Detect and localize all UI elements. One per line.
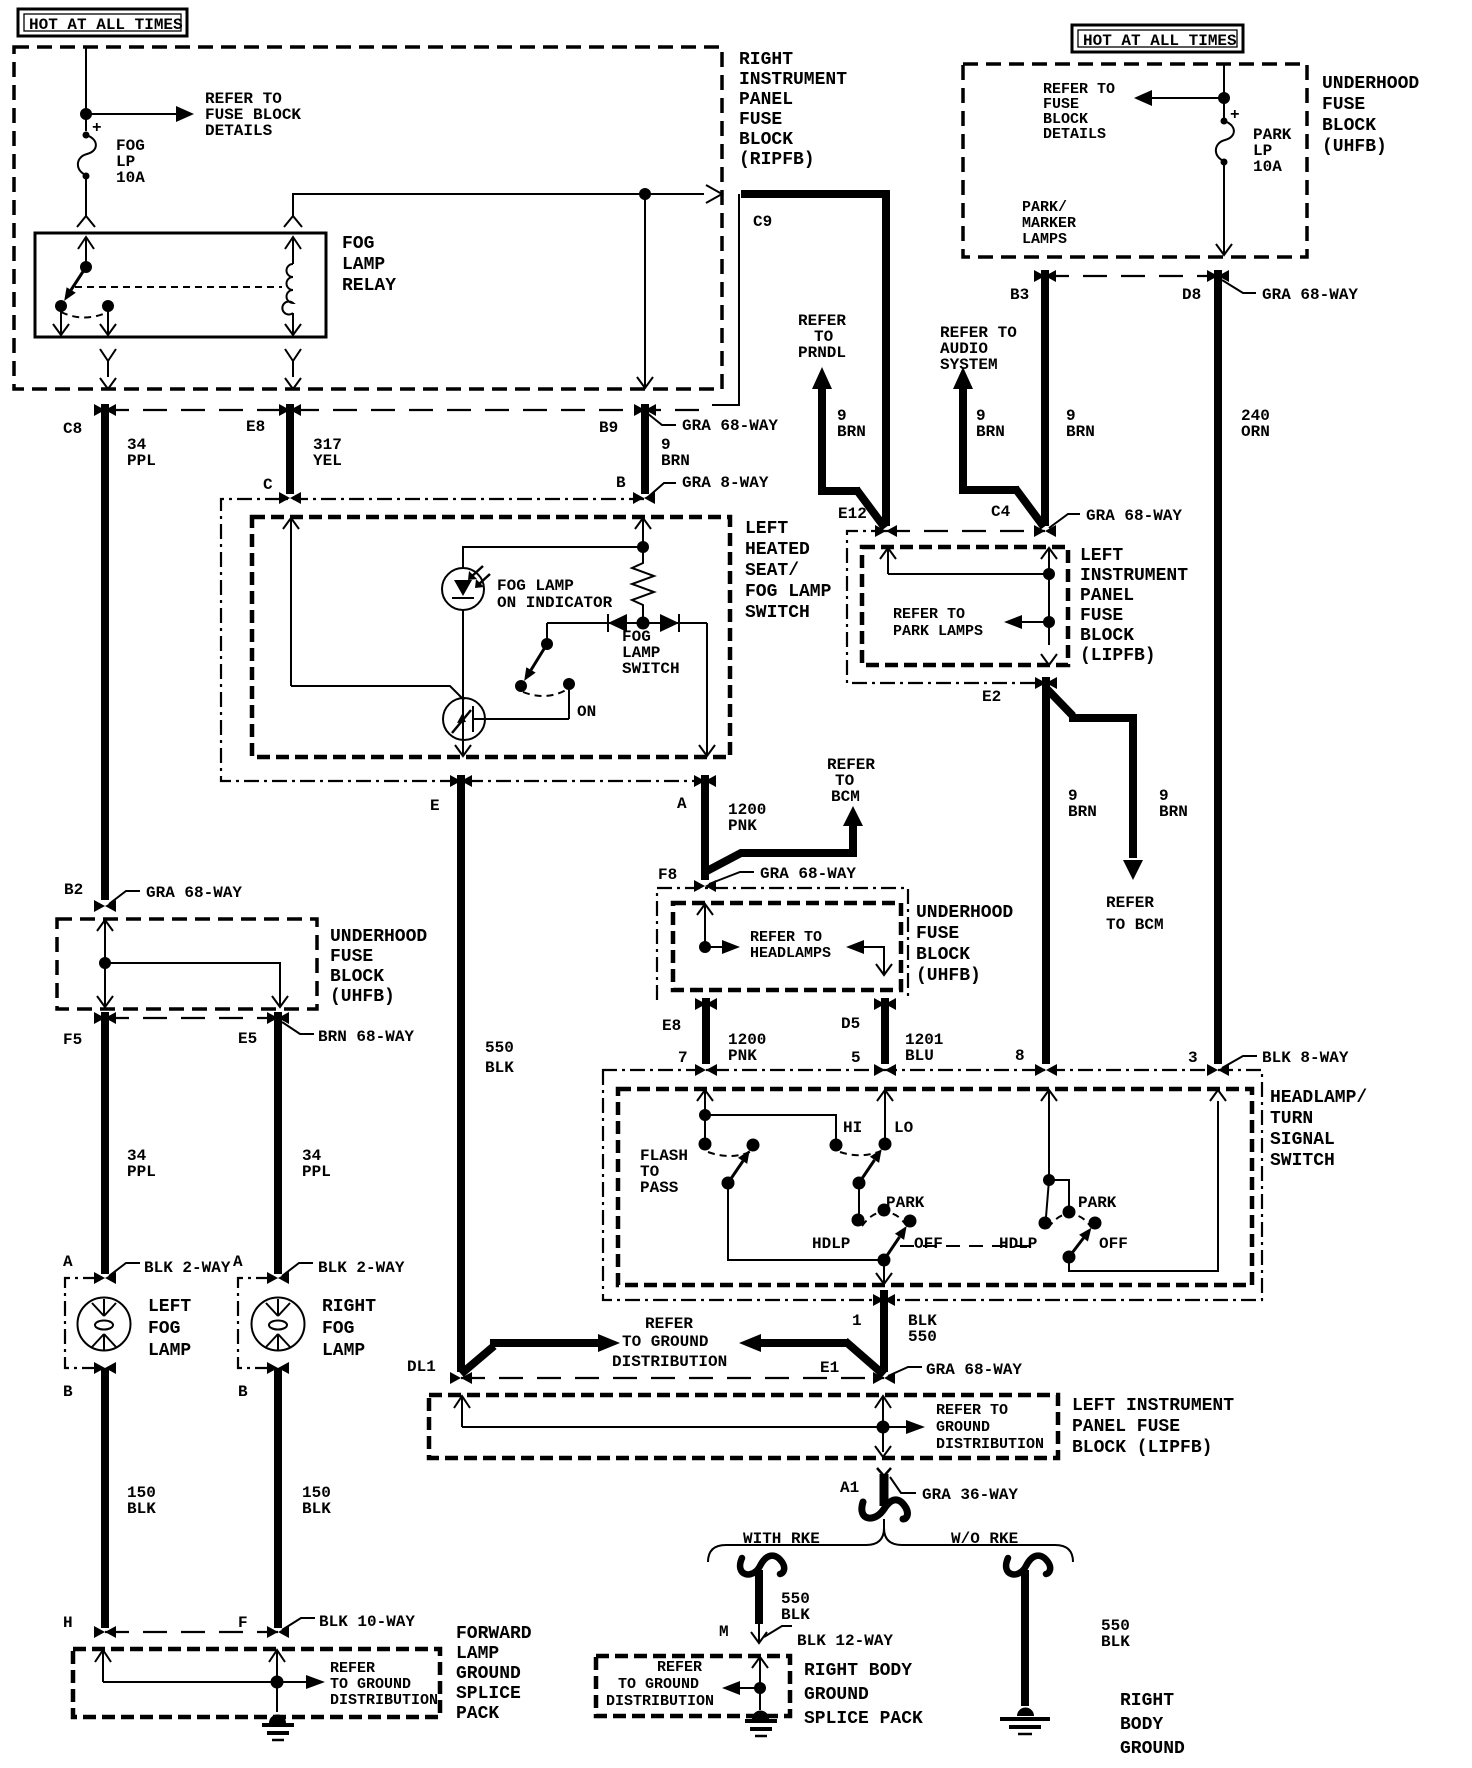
in-line connector A1 bbox=[862, 1468, 908, 1519]
ground (right body ground) bbox=[1000, 1708, 1050, 1735]
svg-text:SYSTEM: SYSTEM bbox=[940, 356, 998, 374]
fog switch blade bbox=[531, 644, 547, 670]
svg-text:A: A bbox=[63, 1253, 73, 1271]
svg-text:M: M bbox=[719, 1623, 729, 1641]
wire arrow REFER TO PRNDL bbox=[822, 385, 885, 528]
svg-text:BLK 12-WAY: BLK 12-WAY bbox=[797, 1632, 893, 1650]
node splice junction bbox=[271, 1676, 284, 1689]
wire UHFB internal tie bbox=[105, 963, 280, 990]
svg-text:E5: E5 bbox=[238, 1030, 257, 1048]
wire arrow REFER TO GROUND DISTRIBUTION (right body) bbox=[740, 1687, 760, 1689]
svg-text:LAMP: LAMP bbox=[456, 1644, 499, 1664]
svg-text:SWITCH: SWITCH bbox=[622, 660, 680, 678]
pin arrow 3 bbox=[1210, 1090, 1226, 1101]
svg-text:PANEL: PANEL bbox=[739, 90, 793, 110]
connector A bowtie (left fog lamp) bbox=[94, 1272, 116, 1284]
LIPFB inner dashed box (upper) bbox=[862, 547, 1068, 665]
svg-text:TO GROUND: TO GROUND bbox=[618, 1676, 699, 1693]
flash-to-pass dashed arc bbox=[708, 1152, 750, 1156]
RIPFB thin boundary line bbox=[712, 194, 739, 405]
transistor fog lamp switch driver bbox=[443, 698, 569, 740]
wire 150 BLK right fog lamp to F bbox=[274, 1368, 282, 1628]
connector row F5/E5 bbox=[105, 1017, 278, 1019]
brace RKE split bbox=[708, 1528, 1073, 1562]
relay bottom connector Y at pin E8 side bbox=[285, 349, 301, 389]
pin arrow H into splice pack bbox=[95, 1650, 111, 1682]
svg-text:C9: C9 bbox=[753, 213, 772, 231]
svg-text:GRA 68-WAY: GRA 68-WAY bbox=[1262, 286, 1358, 304]
in-line connector (W/O RKE) bbox=[1006, 1556, 1050, 1575]
leader GRA 68-WAY at E1 bbox=[888, 1367, 922, 1376]
underhood fuse block (headlamps) outer dash-dot box bbox=[657, 888, 908, 1000]
svg-text:RIGHT: RIGHT bbox=[739, 50, 793, 70]
wire pin8 to HDLP contact (right pole) bbox=[1046, 1180, 1049, 1217]
svg-text:BLOCK: BLOCK bbox=[916, 945, 970, 965]
svg-text:F5: F5 bbox=[63, 1031, 82, 1049]
svg-text:FUSE: FUSE bbox=[1322, 95, 1365, 115]
svg-text:YEL: YEL bbox=[313, 452, 342, 470]
svg-text:(UHFB): (UHFB) bbox=[1322, 137, 1387, 157]
svg-text:BRN: BRN bbox=[976, 423, 1005, 441]
HDLP contact (right pole) bbox=[1039, 1217, 1052, 1230]
connector E2 bowtie bbox=[1035, 677, 1057, 689]
svg-text:BCM: BCM bbox=[831, 788, 860, 806]
svg-text:GROUND: GROUND bbox=[1120, 1739, 1185, 1759]
svg-text:LO: LO bbox=[894, 1119, 914, 1137]
pin arrow 5 bbox=[877, 1090, 893, 1144]
svg-text:C4: C4 bbox=[991, 503, 1011, 521]
node junction inside UHFB bbox=[99, 957, 111, 969]
svg-text:HI: HI bbox=[843, 1119, 862, 1137]
svg-text:BLOCK: BLOCK bbox=[739, 130, 793, 150]
svg-text:REFER TO: REFER TO bbox=[750, 929, 822, 946]
svg-text:ON: ON bbox=[577, 703, 596, 721]
UHFB output arrows F5/E5 bbox=[97, 963, 113, 1007]
headlamp selector blade (left pole) bbox=[884, 1237, 900, 1260]
headlamp selector blade (right pole) bbox=[1069, 1238, 1084, 1257]
svg-text:SIGNAL: SIGNAL bbox=[1270, 1130, 1335, 1150]
svg-text:SEAT/: SEAT/ bbox=[745, 561, 799, 581]
svg-text:+: + bbox=[1230, 106, 1240, 124]
svg-text:INSTRUMENT: INSTRUMENT bbox=[1080, 566, 1188, 586]
svg-text:+: + bbox=[92, 119, 102, 137]
leader GRA 68-WAY at B2 bbox=[109, 891, 140, 904]
PARK contact (right pole) bbox=[1063, 1206, 1076, 1219]
svg-text:W/O RKE: W/O RKE bbox=[951, 1530, 1018, 1548]
leader BLK 2-WAY (left) bbox=[109, 1263, 140, 1276]
leader GRA 68-WAY at B9 bbox=[647, 413, 676, 425]
svg-text:SWITCH: SWITCH bbox=[745, 603, 810, 623]
svg-text:DL1: DL1 bbox=[407, 1358, 436, 1376]
node pin8 junction bbox=[1043, 1174, 1055, 1186]
svg-text:PRNDL: PRNDL bbox=[798, 344, 846, 362]
connector row C8/E8/B9 bbox=[105, 409, 712, 411]
svg-text:GRA 68-WAY: GRA 68-WAY bbox=[682, 417, 778, 435]
svg-text:E8: E8 bbox=[662, 1017, 681, 1035]
LIPFB outer dash-dot box (upper) bbox=[847, 531, 1040, 683]
svg-text:SPLICE: SPLICE bbox=[456, 1684, 521, 1704]
connector H bowtie bbox=[94, 1626, 116, 1638]
svg-text:GRA 36-WAY: GRA 36-WAY bbox=[922, 1486, 1018, 1504]
svg-text:HDLP: HDLP bbox=[999, 1235, 1037, 1253]
pin arrow C into switch bbox=[283, 518, 299, 529]
svg-text:ORN: ORN bbox=[1241, 423, 1270, 441]
OFF contact (left pole) bbox=[904, 1215, 917, 1228]
svg-text:REFER: REFER bbox=[1106, 894, 1154, 912]
OFF contact (right pole) bbox=[1089, 1217, 1102, 1230]
svg-text:(RIPFB): (RIPFB) bbox=[739, 150, 815, 170]
svg-text:DISTRIBUTION: DISTRIBUTION bbox=[606, 1693, 714, 1710]
svg-text:FUSE: FUSE bbox=[916, 924, 959, 944]
connector F bowtie bbox=[267, 1626, 289, 1638]
wire C9 thick path to E12 bbox=[741, 194, 886, 526]
svg-text:BLK 2-WAY: BLK 2-WAY bbox=[144, 1259, 231, 1277]
fog lamp switch inner dashed box bbox=[252, 517, 730, 757]
svg-text:E: E bbox=[430, 797, 440, 815]
node pin7 junction bbox=[699, 1109, 711, 1121]
flash-to-pass moving contact bbox=[747, 1139, 760, 1152]
right fog lamp bbox=[252, 1298, 305, 1351]
wire arrow REFER TO HEADLAMPS right bbox=[846, 940, 864, 954]
svg-text:PANEL FUSE: PANEL FUSE bbox=[1072, 1417, 1180, 1437]
svg-text:FUSE: FUSE bbox=[1080, 606, 1123, 626]
svg-text:REFER: REFER bbox=[657, 1659, 702, 1676]
svg-text:TO GROUND: TO GROUND bbox=[330, 1676, 411, 1693]
svg-text:FOG LAMP: FOG LAMP bbox=[745, 582, 832, 602]
wire feed into PARK LP fuse bbox=[1223, 64, 1225, 119]
wire off pivot return to pin 3 bbox=[1069, 1101, 1218, 1271]
connector A bowtie (right fog lamp) bbox=[267, 1272, 289, 1284]
svg-text:GRA 68-WAY: GRA 68-WAY bbox=[926, 1361, 1022, 1379]
svg-text:PASS: PASS bbox=[640, 1179, 679, 1197]
leader BLK 12-WAY bbox=[764, 1626, 792, 1637]
relay actuation dashed line bbox=[75, 286, 282, 288]
svg-text:BRN: BRN bbox=[837, 423, 866, 441]
connector C8 bowtie bbox=[94, 404, 116, 416]
wire splice tie bbox=[103, 1681, 277, 1683]
connector pin 5 bowtie bbox=[874, 1064, 896, 1076]
svg-text:GROUND: GROUND bbox=[936, 1419, 990, 1436]
wire 1200 PNK A pin to F8 bbox=[701, 775, 709, 880]
svg-text:HEADLAMP/: HEADLAMP/ bbox=[1270, 1088, 1367, 1108]
svg-text:BLOCK: BLOCK bbox=[1080, 626, 1134, 646]
svg-text:E2: E2 bbox=[982, 688, 1001, 706]
wire transistor to E pin bbox=[455, 740, 471, 756]
svg-text:PPL: PPL bbox=[302, 1163, 331, 1181]
wire arrow REFER TO GROUND DISTRIBUTION (from E1) bbox=[739, 1334, 761, 1352]
headlamp switch inner dashed box bbox=[618, 1089, 1252, 1285]
wire 9 BRN B9 to B bbox=[641, 404, 649, 494]
svg-text:LEFT INSTRUMENT: LEFT INSTRUMENT bbox=[1072, 1396, 1234, 1416]
connector DL1 bowtie bbox=[450, 1372, 472, 1384]
svg-text:FOG: FOG bbox=[322, 1319, 354, 1339]
wire 550 BLK with RKE bbox=[755, 1570, 763, 1624]
svg-text:FOG LAMP: FOG LAMP bbox=[497, 577, 574, 595]
connector B9 bowtie bbox=[634, 404, 656, 416]
wire feed into fuse FOG LP bbox=[85, 47, 87, 131]
svg-text:FOG: FOG bbox=[148, 1319, 180, 1339]
wire fuse to relay bbox=[85, 176, 87, 216]
svg-text:E12: E12 bbox=[838, 505, 867, 523]
connector B3 bowtie bbox=[1034, 270, 1056, 282]
connector row DL1/E1 bbox=[461, 1377, 884, 1379]
svg-text:5: 5 bbox=[851, 1049, 861, 1067]
wire right branch of diode to A pin bbox=[699, 623, 715, 756]
svg-text:HEATED: HEATED bbox=[745, 540, 810, 560]
connector D8 bowtie bbox=[1207, 270, 1229, 282]
svg-text:C: C bbox=[263, 476, 273, 494]
svg-text:DETAILS: DETAILS bbox=[205, 122, 273, 140]
connector B bowtie (left fog lamp) bbox=[94, 1362, 116, 1374]
svg-text:H: H bbox=[63, 1614, 73, 1632]
wire arrow REFER TO FUSE BLOCK DETAILS bbox=[86, 113, 178, 115]
headlamp switch outer dash-dot box bbox=[603, 1070, 1262, 1300]
svg-text:BLK 10-WAY: BLK 10-WAY bbox=[319, 1613, 415, 1631]
svg-text:BLOCK: BLOCK bbox=[1322, 116, 1376, 136]
leader BRN 68-WAY at E5 bbox=[282, 1022, 314, 1034]
svg-text:LAMP: LAMP bbox=[148, 1341, 191, 1361]
relay contact output wires with arrows bbox=[53, 306, 69, 335]
svg-text:10A: 10A bbox=[116, 169, 145, 187]
svg-text:HOT AT ALL TIMES: HOT AT ALL TIMES bbox=[1083, 32, 1237, 50]
wire B pin to junction bbox=[642, 518, 644, 547]
LIPFB dashed box (lower) bbox=[429, 1395, 1058, 1458]
svg-text:(UHFB): (UHFB) bbox=[330, 987, 395, 1007]
node diode junction bbox=[637, 617, 650, 630]
ground (forward lamp splice pack) bbox=[262, 1715, 294, 1741]
pin arrow B2 into UHFB bbox=[97, 920, 113, 963]
underhood fuse block UHFB dashed box (left) bbox=[57, 919, 317, 1009]
leader GRA 68-WAY at F8 bbox=[709, 872, 754, 884]
svg-text:D8: D8 bbox=[1182, 286, 1201, 304]
LIPFB output arrow to E2 bbox=[1041, 654, 1057, 665]
connector F5 bowtie bbox=[94, 1012, 116, 1024]
wire LIPFB to park lamps node bbox=[1048, 574, 1050, 645]
svg-text:B2: B2 bbox=[64, 881, 83, 899]
connector B2 bowtie bbox=[94, 900, 116, 912]
svg-text:BLK: BLK bbox=[485, 1059, 514, 1077]
svg-text:D5: D5 bbox=[841, 1015, 860, 1033]
svg-text:GROUND: GROUND bbox=[456, 1664, 521, 1684]
svg-text:REFER: REFER bbox=[645, 1315, 693, 1333]
wire LIPFB internal tie bbox=[888, 573, 1049, 575]
svg-text:BRN: BRN bbox=[1068, 803, 1097, 821]
svg-text:SPLICE PACK: SPLICE PACK bbox=[804, 1709, 923, 1729]
svg-text:B: B bbox=[238, 1383, 248, 1401]
relay bottom connector Y at pin C8 side bbox=[100, 349, 116, 389]
svg-text:PPL: PPL bbox=[127, 452, 156, 470]
svg-text:FOG: FOG bbox=[342, 234, 374, 254]
dimmer blade bbox=[859, 1160, 875, 1183]
svg-text:FORWARD: FORWARD bbox=[456, 1624, 532, 1644]
svg-text:DETAILS: DETAILS bbox=[1043, 126, 1106, 143]
svg-text:LAMP: LAMP bbox=[342, 255, 385, 275]
svg-text:BRN: BRN bbox=[1066, 423, 1095, 441]
svg-text:BLK: BLK bbox=[302, 1500, 331, 1518]
relay contact dashed arc bbox=[61, 312, 108, 318]
pin arrow 8 bbox=[1041, 1090, 1057, 1180]
flash-to-pass blade bbox=[728, 1161, 743, 1183]
connector E bowtie bbox=[450, 775, 472, 787]
wire C-pin branch to transistor bbox=[291, 686, 464, 700]
flash-to-pass fixed contact bbox=[704, 1115, 706, 1144]
svg-text:BRN 68-WAY: BRN 68-WAY bbox=[318, 1028, 414, 1046]
wire pin8 elbow to PARK contact (right pole) bbox=[1049, 1180, 1069, 1206]
leader BLK 8-WAY at pin 3 bbox=[1222, 1056, 1257, 1068]
svg-text:(LIPFB): (LIPFB) bbox=[1080, 646, 1156, 666]
node junction top of resistor bbox=[637, 541, 649, 553]
relay coil bbox=[285, 237, 301, 264]
svg-text:GROUND: GROUND bbox=[804, 1685, 869, 1705]
svg-text:10A: 10A bbox=[1253, 158, 1282, 176]
svg-text:GRA 68-WAY: GRA 68-WAY bbox=[1086, 507, 1182, 525]
connector pin 3 bowtie bbox=[1207, 1064, 1229, 1076]
svg-text:SWITCH: SWITCH bbox=[1270, 1151, 1335, 1171]
in-line connector (WITH RKE) bbox=[740, 1556, 784, 1575]
wire arrow REFER TO AUDIO SYSTEM bbox=[963, 385, 1044, 527]
node LIPFB ground junction bbox=[877, 1421, 890, 1434]
svg-text:HDLP: HDLP bbox=[812, 1235, 850, 1253]
leader BLK 2-WAY (right) bbox=[282, 1263, 313, 1276]
svg-text:3: 3 bbox=[1188, 1049, 1198, 1067]
wire 9 BRN E2 down to pin 8 bbox=[1042, 677, 1050, 1064]
HI-LO dashed arc bbox=[840, 1151, 881, 1155]
fuse block RIPFB dashed box bbox=[14, 47, 722, 389]
svg-text:RIGHT BODY: RIGHT BODY bbox=[804, 1661, 912, 1681]
ground (right body splice pack) bbox=[745, 1711, 777, 1737]
pin arrow E12 into LIPFB bbox=[880, 548, 896, 574]
svg-text:INSTRUMENT: INSTRUMENT bbox=[739, 70, 847, 90]
svg-text:LEFT: LEFT bbox=[1080, 546, 1123, 566]
mechanical link dashed line bbox=[900, 1245, 1038, 1247]
wire splice to ground (right body) bbox=[759, 1688, 761, 1710]
svg-text:BODY: BODY bbox=[1120, 1715, 1163, 1735]
svg-text:C8: C8 bbox=[63, 420, 82, 438]
connector B bowtie bbox=[633, 492, 655, 504]
wire arrow REFER TO PARK LAMPS bbox=[1022, 621, 1049, 623]
leader GRA 68-WAY at D8 bbox=[1222, 280, 1256, 293]
wire 150 BLK left fog lamp to H bbox=[101, 1368, 109, 1628]
pin arrow B into switch bbox=[635, 518, 651, 529]
svg-text:DISTRIBUTION: DISTRIBUTION bbox=[936, 1436, 1044, 1453]
svg-text:RIGHT: RIGHT bbox=[322, 1297, 376, 1317]
connector row H/F bbox=[105, 1631, 278, 1633]
pin arrow F into splice pack bbox=[269, 1650, 285, 1682]
relay pin arrow (switch common) bbox=[78, 237, 94, 267]
wire arrow REFER TO GROUND DISTRIBUTION (splice) bbox=[277, 1681, 306, 1683]
label HOT AT ALL TIMES (right) bbox=[1072, 25, 1243, 52]
fuse FOG LP 10A bbox=[78, 119, 145, 187]
svg-text:FUSE: FUSE bbox=[330, 947, 373, 967]
svg-text:PANEL: PANEL bbox=[1080, 586, 1134, 606]
svg-text:REFER: REFER bbox=[330, 1660, 375, 1677]
wire C pin down inside switch bbox=[290, 518, 292, 686]
headlamp selector dashed arc (left pole) bbox=[862, 1212, 906, 1226]
svg-text:LAMP: LAMP bbox=[322, 1341, 365, 1361]
connector E1 bowtie bbox=[873, 1372, 895, 1384]
svg-text:MARKER: MARKER bbox=[1022, 215, 1076, 232]
wire arrow REFER TO FUSE BLOCK DETAILS (left) bbox=[1152, 97, 1224, 99]
svg-text:REFER TO: REFER TO bbox=[936, 1402, 1008, 1419]
svg-text:ON INDICATOR: ON INDICATOR bbox=[497, 594, 613, 612]
svg-text:PARK: PARK bbox=[886, 1194, 925, 1212]
wire branch down to B9 bbox=[637, 194, 653, 388]
wire relay coil to RIPFB (horizontal) bbox=[293, 194, 704, 216]
svg-text:1: 1 bbox=[852, 1312, 862, 1330]
wire flash pivot to off pivot bbox=[728, 1183, 884, 1260]
leader GRA 68-WAY at C4 bbox=[1049, 514, 1080, 528]
LO contact bbox=[879, 1138, 892, 1151]
svg-text:PPL: PPL bbox=[127, 1163, 156, 1181]
leader GRA 8-WAY at B bbox=[648, 483, 676, 497]
fog lamp switch outer dash-dot box bbox=[221, 499, 700, 781]
svg-text:550: 550 bbox=[908, 1328, 937, 1346]
svg-text:A: A bbox=[233, 1253, 243, 1271]
pin arrow C4 into LIPFB bbox=[1041, 548, 1057, 574]
wire dimmer pivot to HDLP contact bbox=[858, 1183, 860, 1220]
LED fog lamp on indicator bbox=[442, 566, 490, 610]
node right body splice junction bbox=[754, 1682, 766, 1694]
svg-text:GRA 68-WAY: GRA 68-WAY bbox=[146, 884, 242, 902]
connector A bowtie bbox=[694, 775, 716, 787]
svg-text:F8: F8 bbox=[658, 866, 677, 884]
LIPFB bottom arrow to A1 bbox=[875, 1446, 891, 1457]
relay FOG LAMP RELAY box bbox=[35, 233, 326, 337]
diode right bbox=[660, 614, 679, 632]
right fog lamp dash-dot box bbox=[238, 1278, 271, 1368]
wire LIPFB ground tie bbox=[462, 1426, 883, 1428]
PARK contact (left pole) bbox=[878, 1204, 891, 1217]
HDLP contact (left pole) bbox=[852, 1214, 865, 1227]
svg-text:7: 7 bbox=[678, 1049, 688, 1067]
wire junction to LED bbox=[463, 547, 643, 568]
wire 240 ORN D8 to pin 3 bbox=[1214, 270, 1222, 1064]
svg-text:B: B bbox=[616, 474, 626, 492]
ON contact wire bbox=[568, 684, 570, 719]
connector E12 bowtie bbox=[875, 525, 897, 537]
node junction at park fuse feed bbox=[1218, 92, 1230, 104]
svg-text:REFER TO: REFER TO bbox=[893, 606, 965, 623]
svg-text:BLK: BLK bbox=[781, 1606, 810, 1624]
wire diode line down to switch contact bbox=[546, 623, 548, 639]
svg-text:B9: B9 bbox=[599, 419, 618, 437]
wire 1200 PNK E8 to pin 7 bbox=[702, 998, 710, 1064]
underhood fuse block (headlamps) inner dashed box bbox=[673, 903, 901, 990]
svg-text:UNDERHOOD: UNDERHOOD bbox=[1322, 74, 1419, 94]
headlamp selector dashed arc (right pole) bbox=[1048, 1214, 1091, 1228]
connector E5 bowtie bbox=[267, 1012, 289, 1024]
relay switch blade bbox=[80, 261, 92, 273]
wire 1201 BLU D5 to pin 5 bbox=[881, 998, 889, 1064]
svg-text:BLOCK (LIPFB): BLOCK (LIPFB) bbox=[1072, 1438, 1212, 1458]
pin arrow DL1 into LIPFB bbox=[454, 1396, 470, 1427]
connector pin 8 bowtie bbox=[1035, 1064, 1057, 1076]
svg-text:WITH RKE: WITH RKE bbox=[743, 1530, 820, 1548]
svg-text:BRN: BRN bbox=[1159, 803, 1188, 821]
underhood fuse block UHFB dashed box (top right) bbox=[963, 64, 1307, 257]
wire 9 BRN B3 to C4 bbox=[1041, 270, 1049, 526]
svg-text:OFF: OFF bbox=[1099, 1235, 1128, 1253]
connector B bowtie (right fog lamp) bbox=[267, 1362, 289, 1374]
svg-text:BLK 2-WAY: BLK 2-WAY bbox=[318, 1259, 405, 1277]
wire 550 BLK w/o RKE bbox=[1021, 1570, 1029, 1706]
leader BLK 10-WAY at F bbox=[282, 1618, 315, 1630]
svg-text:PARK LAMPS: PARK LAMPS bbox=[893, 623, 983, 640]
connector D5 bowtie bbox=[874, 998, 896, 1010]
label HOT AT ALL TIMES (left) bbox=[18, 9, 187, 36]
svg-text:8: 8 bbox=[1015, 1047, 1025, 1065]
relay contact nodes bbox=[55, 300, 67, 312]
